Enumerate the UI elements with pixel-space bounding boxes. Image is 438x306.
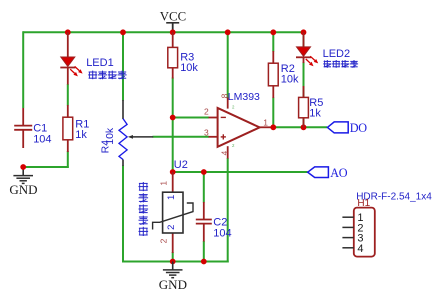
resistor R1 (63, 105, 73, 152)
wire op-amp pin 4 to bottom rail (227, 158, 229, 263)
svg-text:LM393: LM393 (228, 91, 260, 103)
svg-text:U2: U2 (174, 159, 188, 171)
svg-text:GND: GND (9, 182, 37, 197)
node junction R2/output (270, 124, 276, 130)
pin number 4 (219, 151, 229, 156)
svg-text:VCC: VCC (160, 10, 186, 24)
svg-text:GND: GND (159, 277, 187, 292)
label C2 value (213, 217, 231, 240)
wire inverting input (pin 2) (173, 117, 209, 119)
label C1 value (33, 123, 51, 146)
op-amp pin 2 stub (209, 117, 218, 119)
svg-text:4: 4 (219, 151, 229, 156)
label R3 value (180, 51, 198, 74)
svg-text:4: 4 (357, 243, 363, 255)
wire R2 branch mid (272, 98, 274, 128)
node junction U2/AO (170, 169, 176, 175)
svg-text:10k: 10k (104, 127, 116, 145)
svg-text:1: 1 (263, 117, 268, 127)
op-amp pin 4 stub (227, 146, 229, 158)
wire op-amp pin 8 to rail (227, 31, 229, 98)
wire bottom-left to GND node (22, 166, 68, 168)
wire left rail (C1 branch) (22, 31, 24, 108)
pin number 1 (263, 117, 268, 127)
wire C2 bottom (203, 241, 205, 262)
wire non-inverting input (pin 3) (153, 136, 209, 138)
node junction VCC/R3 (170, 29, 176, 35)
wire C2 top (203, 172, 205, 203)
resistor R2 (268, 51, 278, 98)
node junction LED1/rail (65, 29, 71, 35)
op-amp pin 3 stub (209, 136, 218, 138)
resistor R5 (299, 86, 309, 127)
node junction C2/GND rail (201, 259, 207, 265)
label R1 value (75, 118, 89, 141)
LED LED2 (296, 32, 318, 66)
op-amp pin 8 stub (227, 98, 229, 109)
port AO (308, 166, 348, 180)
LED LED1 (60, 32, 82, 84)
rain sensor U2 pin 1 (172, 172, 174, 192)
ground GND (left) (9, 166, 37, 197)
svg-text:10k: 10k (281, 74, 299, 86)
label U2 (174, 159, 188, 171)
label U2 caption 雨滴传感器 (139, 182, 149, 236)
svg-text:2: 2 (204, 106, 209, 116)
power symbol VCC (160, 10, 186, 33)
wire VCC top rail (23, 31, 303, 33)
svg-text:3: 3 (204, 127, 209, 137)
label R5 value (309, 97, 323, 120)
wire R3 bottom to pin2 node (172, 78, 174, 118)
wire LED1/R1 branch mid (67, 84, 69, 106)
wire LED2 to R5 (303, 62, 305, 98)
potentiometer R4 wiper (128, 135, 153, 139)
svg-text:104: 104 (213, 228, 231, 240)
node junction R2/rail (270, 29, 276, 35)
wire LED2 branch (303, 31, 305, 47)
wire U2 pin2 bottom (172, 252, 174, 262)
wire R1 bottom (67, 151, 69, 168)
svg-text:10k: 10k (180, 62, 198, 74)
label R4 value (99, 127, 115, 153)
pin number 2 (204, 106, 209, 116)
label R2 value (281, 63, 299, 86)
svg-text:DO: DO (350, 121, 368, 135)
resistor R3 (168, 32, 178, 78)
op-amp U1 LM393 body (218, 108, 260, 147)
label LED2 caption 开关指示 (323, 60, 358, 68)
potentiometer R4 (119, 100, 127, 166)
svg-text:104: 104 (33, 133, 51, 145)
svg-text:LED1: LED1 (86, 57, 114, 69)
node junction LED2/rail (301, 29, 307, 35)
label header designator H1 (357, 198, 370, 209)
connector H1 (342, 208, 374, 257)
pin designator U2-1 (158, 181, 168, 186)
capacitor C1 (14, 108, 32, 148)
rain sensor U2 pin 2 (172, 233, 174, 253)
wire R5 bottom to output (303, 118, 305, 128)
node junction R3/pin2/U2 (170, 115, 176, 121)
label LED2 (323, 48, 351, 60)
svg-text:1k: 1k (309, 108, 321, 120)
svg-text:1: 1 (158, 181, 168, 186)
node junction R5/output (301, 124, 307, 130)
wire output node to DO (273, 126, 327, 128)
label LED1 caption 电源指示 (88, 71, 126, 80)
svg-text:2: 2 (158, 238, 168, 243)
node junction C2/AO (201, 169, 207, 175)
node junction U2/GND rail (170, 259, 176, 265)
label LED1 (86, 57, 114, 69)
node junction pin8/rail (225, 29, 231, 35)
port DO (327, 121, 367, 135)
op-amp pin 1 stub (259, 126, 273, 128)
pin name U2-2 (166, 225, 177, 230)
node junction R4/rail (120, 29, 126, 35)
svg-text:1: 1 (166, 195, 177, 200)
wire R4 top (122, 31, 124, 100)
ground GND (bottom) (159, 262, 187, 292)
capacitor C2 (196, 202, 212, 242)
gate mark bottom (232, 143, 235, 148)
svg-text:2: 2 (166, 225, 177, 230)
svg-text:1k: 1k (75, 129, 87, 141)
gate mark top (232, 104, 235, 109)
svg-text:LED2: LED2 (323, 48, 351, 60)
wire U2 node to AO (173, 171, 308, 173)
label header part number (356, 191, 432, 202)
pin number 3 (204, 127, 209, 137)
rain sensor U2 body (153, 192, 193, 233)
svg-text:AO: AO (330, 166, 348, 180)
wire bottom GND rail (122, 261, 229, 263)
pin number 8 (219, 93, 229, 98)
wire pin2 node down to U2 node (172, 118, 174, 173)
label LM393 (228, 91, 260, 103)
wire R4 bottom (122, 166, 124, 263)
pin designator U2-2 (158, 238, 168, 243)
node junction C1/GND (20, 164, 26, 170)
pin name U2-1 (166, 195, 177, 200)
wire R2 branch top (272, 31, 274, 51)
